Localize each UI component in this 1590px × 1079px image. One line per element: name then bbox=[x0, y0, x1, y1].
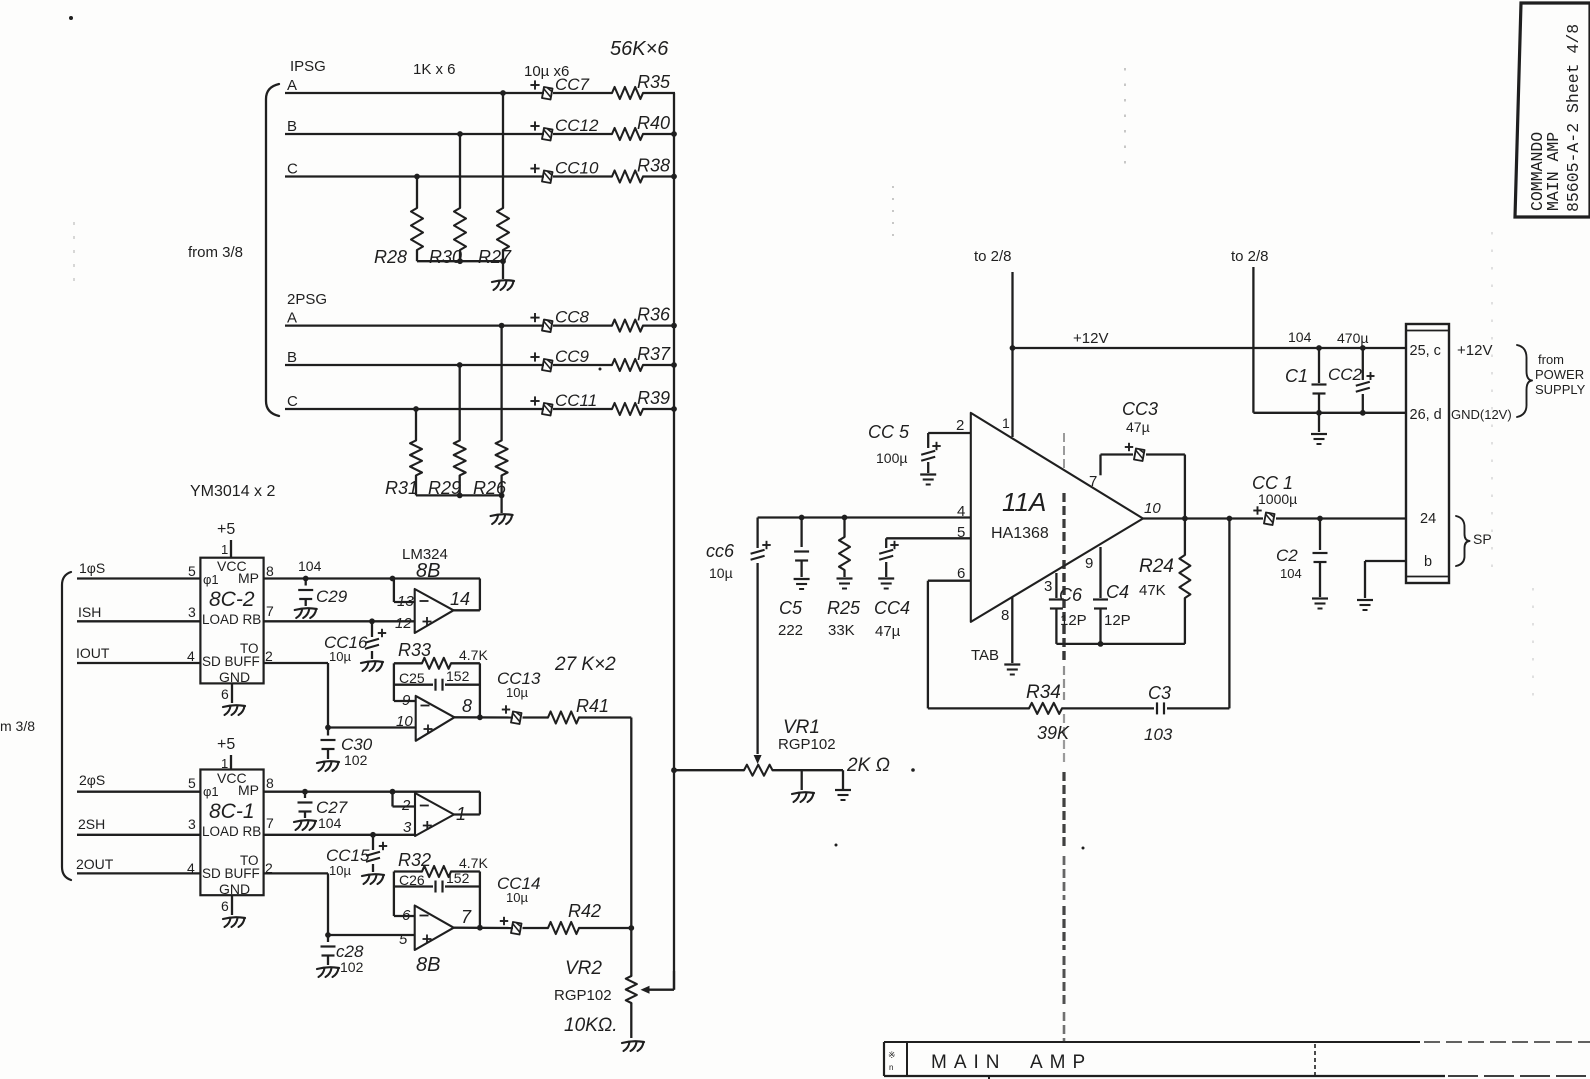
svg-text:222: 222 bbox=[778, 622, 803, 639]
svg-text:2: 2 bbox=[265, 648, 273, 664]
capacitor C26 bbox=[394, 881, 480, 893]
label C2 104 bbox=[1276, 546, 1302, 581]
svg-text:to 2/8: to 2/8 bbox=[1231, 248, 1269, 265]
svg-text:10: 10 bbox=[1144, 500, 1161, 517]
svg-text:5: 5 bbox=[399, 931, 408, 948]
svg-text:C4: C4 bbox=[1106, 582, 1129, 602]
label CC6 10u bbox=[706, 541, 735, 581]
svg-text:4: 4 bbox=[187, 648, 195, 664]
svg-text:47µ: 47µ bbox=[1126, 419, 1150, 435]
wire op-amp 14 feedback bbox=[454, 579, 480, 611]
op-amp U8B-d (6/5/7) bbox=[399, 906, 472, 951]
svg-text:8: 8 bbox=[266, 775, 274, 791]
wire MP2 (pin8) line bbox=[264, 789, 480, 795]
svg-text:SD BUFF: SD BUFF bbox=[202, 654, 260, 669]
label C6 12P bbox=[1059, 585, 1087, 629]
capacitor CC16 bbox=[361, 621, 386, 671]
label R30 bbox=[429, 247, 462, 267]
svg-text:100µ: 100µ bbox=[876, 450, 907, 466]
label C4 12P bbox=[1104, 582, 1131, 629]
svg-text:3: 3 bbox=[188, 816, 196, 832]
capacitor C25 bbox=[394, 679, 480, 691]
svg-text:SD BUFF: SD BUFF bbox=[202, 866, 260, 881]
svg-text:R30: R30 bbox=[429, 247, 462, 267]
label R32 4.7K bbox=[398, 850, 488, 871]
svg-text:LOAD RB: LOAD RB bbox=[202, 824, 261, 839]
wire 1phiS to pin 5 bbox=[77, 560, 200, 579]
wire R42 to mix node bbox=[579, 927, 631, 929]
sheet info box bbox=[1515, 3, 1590, 217]
ground C1 bbox=[1311, 413, 1327, 444]
svg-text:10KΩ.: 10KΩ. bbox=[564, 1015, 618, 1036]
wire R38 to bus bbox=[643, 175, 675, 177]
svg-text:3: 3 bbox=[403, 819, 412, 836]
resistor R33 bbox=[394, 658, 480, 669]
label C26 152 bbox=[399, 870, 470, 888]
value 1K x 6 label bbox=[413, 61, 456, 78]
label 8B (upper) bbox=[416, 560, 440, 582]
wire 2SH to pin 3 bbox=[77, 816, 200, 835]
capacitor CC7 bbox=[530, 80, 552, 99]
svg-text:8: 8 bbox=[266, 563, 274, 579]
svg-text:102: 102 bbox=[340, 959, 364, 975]
ground U8C-1 pin 6 bbox=[221, 895, 245, 927]
resistor R25 bbox=[837, 518, 853, 589]
svg-text:YM3014 x 2: YM3014 x 2 bbox=[190, 483, 275, 500]
capacitor CC2 bbox=[1356, 348, 1375, 413]
power +5 to U8C-1 pin 1 bbox=[217, 736, 235, 771]
svg-text:5: 5 bbox=[957, 524, 965, 541]
resistor R31 with wire bbox=[410, 406, 422, 495]
label VR2 RGP102 10Kohm bbox=[554, 958, 618, 1036]
label C1 104 bbox=[1285, 329, 1312, 386]
wire CC13 to R41 bbox=[523, 716, 549, 718]
svg-text:56K×6: 56K×6 bbox=[610, 38, 669, 60]
svg-text:C3: C3 bbox=[1148, 683, 1171, 703]
label CC7 bbox=[555, 75, 590, 94]
label R26 bbox=[473, 478, 507, 498]
svg-text:12P: 12P bbox=[1104, 612, 1131, 629]
svg-text:24: 24 bbox=[1420, 511, 1436, 527]
ground VR1 (earth) bbox=[835, 770, 851, 800]
power +5 to U8C-2 pin 1 bbox=[217, 521, 235, 558]
svg-text:CC10: CC10 bbox=[555, 159, 599, 178]
label R39 bbox=[637, 388, 670, 408]
label R31 bbox=[385, 478, 418, 498]
capacitor C6 on pin 3 bbox=[1049, 573, 1064, 644]
op-amp U8B-b (9/10/8) bbox=[396, 692, 472, 741]
svg-text:2: 2 bbox=[956, 417, 964, 434]
node B (1PSG) label bbox=[287, 118, 297, 135]
node 1PSG group bracket bbox=[266, 84, 279, 416]
svg-text:1φS: 1φS bbox=[79, 560, 105, 576]
ground VR2 bbox=[622, 1041, 644, 1051]
svg-text:10µ: 10µ bbox=[506, 685, 528, 700]
svg-text:102: 102 bbox=[344, 752, 368, 768]
svg-text:R41: R41 bbox=[576, 696, 609, 716]
wire GND(12V) rail bbox=[1253, 410, 1406, 416]
svg-text:B: B bbox=[287, 349, 297, 366]
capacitor C30 bbox=[317, 725, 339, 771]
svg-text:φ1: φ1 bbox=[203, 572, 219, 587]
svg-text:m 3/8: m 3/8 bbox=[0, 718, 35, 734]
svg-text:HA1368: HA1368 bbox=[991, 525, 1049, 542]
label CC4 47u bbox=[874, 598, 910, 640]
resistor R27 with wire bbox=[497, 90, 509, 261]
svg-text:R39: R39 bbox=[637, 388, 670, 408]
wire CC11 to R39 bbox=[553, 408, 612, 410]
svg-text:MP: MP bbox=[238, 782, 259, 798]
label CC1 1000u bbox=[1252, 473, 1297, 507]
label YM3014 x 2 bbox=[190, 483, 275, 500]
svg-text:3: 3 bbox=[188, 604, 196, 620]
wire MP (pin8) line bbox=[264, 576, 480, 582]
potentiometer VR1 bbox=[744, 563, 843, 776]
svg-text:R37: R37 bbox=[637, 344, 671, 364]
svg-text:C: C bbox=[287, 161, 298, 178]
IC U8C-2 YM3014 bbox=[187, 558, 274, 685]
svg-text:R38: R38 bbox=[637, 156, 670, 176]
svg-text:7: 7 bbox=[461, 907, 472, 927]
svg-text:n: n bbox=[889, 1063, 893, 1072]
svg-text:4.7K: 4.7K bbox=[459, 855, 488, 871]
svg-text:47µ: 47µ bbox=[875, 623, 901, 640]
node from POWER SUPPLY brace bbox=[1517, 345, 1586, 417]
label C25 152 bbox=[399, 668, 470, 686]
label CC8 bbox=[555, 308, 590, 327]
wire HA1368 output bbox=[1143, 517, 1263, 519]
label C28 102 bbox=[336, 942, 364, 975]
wire CC8 to R36 bbox=[553, 324, 612, 326]
svg-text:152: 152 bbox=[446, 668, 470, 684]
capacitor CC14 bbox=[500, 917, 522, 935]
svg-text:+5: +5 bbox=[217, 736, 235, 753]
svg-text:1K x 6: 1K x 6 bbox=[413, 61, 456, 78]
node 2PSG label bbox=[287, 291, 327, 308]
svg-text:C2: C2 bbox=[1276, 546, 1298, 565]
svg-text:R27: R27 bbox=[478, 247, 512, 267]
value 10u x 6 label bbox=[524, 63, 569, 80]
svg-text:104: 104 bbox=[298, 558, 322, 574]
svg-text:CC4: CC4 bbox=[874, 598, 910, 618]
capacitor C4 on pin 9 bbox=[1093, 547, 1108, 644]
wire HA1368 pin 6 feedback bbox=[928, 581, 971, 709]
svg-text:12: 12 bbox=[395, 615, 412, 632]
label LM324 bbox=[402, 546, 448, 563]
svg-text:CC2: CC2 bbox=[1328, 365, 1363, 384]
node SP brace bbox=[1456, 516, 1492, 566]
node to 2/8 (right) bbox=[1231, 248, 1269, 265]
svg-text:CC 5: CC 5 bbox=[868, 422, 910, 442]
resistor R38 bbox=[612, 171, 643, 183]
svg-text:104: 104 bbox=[1280, 566, 1302, 581]
svg-text:CC12: CC12 bbox=[555, 116, 599, 135]
wire mix node vertical R41/R42 bbox=[628, 718, 634, 977]
wire pin 9 to feedback bbox=[394, 663, 416, 701]
svg-text:10µ: 10µ bbox=[506, 890, 528, 905]
capacitor C5 bbox=[794, 518, 810, 590]
wire op-amp 1 feedback bbox=[454, 792, 480, 815]
svg-text:b: b bbox=[1424, 554, 1432, 570]
capacitor CC5 on pin 2 bbox=[920, 433, 971, 485]
svg-text:VR2: VR2 bbox=[565, 958, 602, 979]
label CC10 bbox=[555, 159, 599, 178]
ground connector pin b bbox=[1357, 561, 1406, 610]
wire U8C-2 pin2 to op-amp pin 10 bbox=[264, 663, 415, 728]
svg-text:1: 1 bbox=[221, 542, 228, 557]
svg-text:8B: 8B bbox=[416, 954, 440, 976]
svg-text:ISH: ISH bbox=[78, 604, 101, 620]
svg-text:8C-2: 8C-2 bbox=[209, 588, 255, 611]
wire 2OUT to pin 4 bbox=[76, 856, 200, 873]
capacitor C29 bbox=[295, 558, 322, 618]
svg-text:φ1: φ1 bbox=[203, 784, 219, 799]
ground U8C-2 pin 6 bbox=[221, 683, 245, 715]
label CC5 100u bbox=[868, 422, 910, 466]
wire pin 6 to feedback bbox=[394, 872, 415, 917]
wire to 2/8 down to GND rail bbox=[1252, 267, 1254, 413]
svg-text:R25: R25 bbox=[827, 598, 861, 618]
wire R41 to mix node bbox=[579, 716, 631, 718]
svg-text:CC3: CC3 bbox=[1122, 399, 1158, 419]
svg-text:8: 8 bbox=[462, 696, 472, 716]
wire CC9 to R37 bbox=[553, 364, 612, 366]
label R42 bbox=[568, 901, 601, 921]
wire CC14 to R42 bbox=[523, 927, 549, 929]
svg-text:2φS: 2φS bbox=[79, 772, 105, 788]
svg-text:SP: SP bbox=[1473, 531, 1492, 547]
wire CC7 to R35 bbox=[553, 92, 612, 94]
wire bus to VR1 bbox=[674, 769, 744, 771]
resistor R39 bbox=[612, 403, 643, 415]
label +12V (connector) bbox=[1457, 342, 1492, 359]
resistor R40 bbox=[612, 128, 643, 140]
resistor R36 bbox=[612, 320, 643, 332]
svg-text:RGP102: RGP102 bbox=[778, 736, 836, 753]
svg-text:6: 6 bbox=[221, 898, 229, 914]
svg-text:from 3/8: from 3/8 bbox=[188, 244, 243, 261]
wire tie line 1PSG resistors bbox=[417, 258, 506, 264]
wire U8C-1 pin2 to op-amp pin 5 bbox=[264, 873, 414, 935]
label C30 102 bbox=[341, 735, 373, 768]
svg-text:R34: R34 bbox=[1026, 682, 1061, 703]
svg-text:R35: R35 bbox=[637, 72, 671, 92]
label CC9 bbox=[555, 347, 590, 366]
svg-text:B: B bbox=[287, 118, 297, 135]
svg-text:1000µ: 1000µ bbox=[1258, 491, 1297, 507]
svg-text:C25: C25 bbox=[399, 670, 425, 686]
label CC15 10u bbox=[326, 846, 370, 878]
wire R39 to bus bbox=[643, 408, 675, 410]
svg-text:7: 7 bbox=[266, 603, 274, 619]
svg-text:10µ: 10µ bbox=[709, 565, 733, 581]
node A (1PSG) label bbox=[287, 77, 297, 94]
capacitor CC11 bbox=[530, 396, 552, 415]
wire 2phiS to pin 5 bbox=[77, 772, 200, 792]
capacitor CC8 bbox=[530, 313, 552, 332]
label C29 bbox=[316, 587, 348, 606]
svg-text:2K Ω: 2K Ω bbox=[846, 755, 890, 776]
svg-text:MAIN AMP: MAIN AMP bbox=[931, 1052, 1092, 1073]
node A (2PSG) label bbox=[287, 310, 297, 327]
wire CC10 to R38 bbox=[553, 175, 612, 177]
svg-text:104: 104 bbox=[1288, 329, 1312, 345]
svg-text:8: 8 bbox=[1001, 607, 1009, 624]
wire RB (pin7) to op-amp pin 12 bbox=[264, 618, 414, 624]
wire CC12 to R40 bbox=[553, 133, 612, 135]
label GND(12V) bbox=[1451, 407, 1512, 422]
wire MP2 to pin 2 bbox=[393, 792, 416, 807]
svg-text:152: 152 bbox=[446, 870, 470, 886]
wire CC1 to connector pin 24 bbox=[1276, 516, 1406, 522]
svg-text:5: 5 bbox=[188, 563, 196, 579]
svg-text:7: 7 bbox=[1089, 473, 1097, 490]
svg-text:GND: GND bbox=[219, 669, 250, 685]
wire mix bus vertical bbox=[671, 93, 677, 990]
label R24 47K bbox=[1139, 556, 1174, 599]
svg-text:VR1: VR1 bbox=[783, 717, 820, 738]
svg-text:103: 103 bbox=[1144, 725, 1173, 744]
svg-text:470µ: 470µ bbox=[1337, 330, 1368, 346]
svg-text:+12V: +12V bbox=[1457, 342, 1492, 359]
wire feedback right side bbox=[477, 663, 483, 720]
op-amp U8B-a (13/12/14) bbox=[395, 589, 470, 633]
svg-text:8C-1: 8C-1 bbox=[209, 800, 255, 823]
label R41 bbox=[576, 696, 609, 716]
capacitor CC9 bbox=[530, 352, 552, 371]
wire 1SH to pin 3 bbox=[77, 604, 200, 621]
svg-text:C29: C29 bbox=[316, 587, 348, 606]
svg-text:2SH: 2SH bbox=[78, 816, 105, 832]
title block bbox=[884, 1042, 1590, 1079]
wire R36 to bus bbox=[643, 324, 675, 326]
wire A line to CC8 bbox=[285, 324, 544, 326]
svg-text:25, c: 25, c bbox=[1410, 343, 1441, 359]
node 1PSG label bbox=[290, 58, 326, 75]
svg-text:C26: C26 bbox=[399, 872, 425, 888]
svg-text:A: A bbox=[287, 310, 297, 327]
resistor R42 bbox=[548, 922, 579, 934]
label CC13 10u bbox=[497, 669, 541, 700]
svg-text:8B: 8B bbox=[416, 560, 440, 582]
capacitor C1 bbox=[1312, 348, 1327, 413]
label CC14 10u bbox=[497, 874, 540, 905]
capacitor C28 bbox=[317, 932, 339, 977]
svg-text:5: 5 bbox=[188, 775, 196, 791]
amplifier U11A HA1368 bbox=[956, 413, 1161, 624]
wire C line to CC11 bbox=[285, 408, 544, 410]
wire feedback rail left bbox=[928, 707, 1029, 709]
svg-text:※: ※ bbox=[888, 1050, 896, 1060]
svg-text:10µ: 10µ bbox=[329, 649, 351, 664]
label R33 4.7K bbox=[398, 640, 488, 663]
svg-text:10: 10 bbox=[396, 713, 413, 730]
svg-text:SUPPLY: SUPPLY bbox=[1535, 382, 1586, 397]
svg-text:14: 14 bbox=[450, 589, 470, 609]
label R28 bbox=[374, 247, 407, 267]
wire R37 to bus bbox=[643, 364, 675, 366]
svg-text:cc6: cc6 bbox=[706, 541, 735, 561]
svg-text:C5: C5 bbox=[779, 598, 803, 618]
svg-text:1: 1 bbox=[1002, 415, 1010, 431]
svg-text:C1: C1 bbox=[1285, 366, 1308, 386]
svg-text:RGP102: RGP102 bbox=[554, 987, 612, 1004]
wire pin 7 stub bbox=[1099, 455, 1101, 476]
node from 3/8 label (left edge) bbox=[0, 718, 35, 734]
svg-text:+5: +5 bbox=[217, 521, 235, 538]
resistor R41 bbox=[548, 712, 579, 724]
label CC11 bbox=[555, 391, 597, 410]
label C27 104 bbox=[316, 798, 348, 831]
label R37 bbox=[637, 344, 671, 364]
capacitor CC1 bbox=[1253, 506, 1274, 525]
label R25 33K bbox=[827, 598, 861, 639]
svg-text:R36: R36 bbox=[637, 305, 671, 325]
label C3 103 bbox=[1144, 683, 1173, 744]
ground 2PSG resistors bbox=[491, 495, 513, 524]
svg-text:R28: R28 bbox=[374, 247, 407, 267]
wire B line to CC12 bbox=[285, 133, 544, 135]
node input bracket from 3/8 bbox=[62, 572, 71, 880]
node C (1PSG) label bbox=[287, 161, 298, 178]
svg-text:11A: 11A bbox=[1002, 487, 1046, 517]
wire B line to CC9 bbox=[285, 364, 544, 366]
svg-text:IOUT: IOUT bbox=[76, 645, 110, 661]
wire HA1368 pin 1 to +12V and to 2/8 bbox=[1010, 272, 1016, 437]
svg-text:CC 1: CC 1 bbox=[1252, 473, 1293, 493]
label R29 bbox=[428, 478, 461, 498]
svg-text:R42: R42 bbox=[568, 901, 601, 921]
label R36 bbox=[637, 305, 671, 325]
node to 2/8 (left) bbox=[974, 248, 1012, 265]
wire MP to pin 13 bbox=[394, 579, 415, 603]
svg-text:4.7K: 4.7K bbox=[459, 647, 488, 663]
wire C3 to output node bbox=[1167, 516, 1232, 709]
wire R40 to bus bbox=[643, 133, 675, 135]
resistor R24 bbox=[1179, 519, 1190, 644]
label 8B (lower) bbox=[416, 954, 440, 976]
ground HA1368 pin 8 TAB bbox=[971, 597, 1020, 675]
svg-text:A: A bbox=[287, 77, 297, 94]
svg-text:CC8: CC8 bbox=[555, 308, 590, 327]
capacitor CC13 bbox=[502, 705, 522, 724]
label 27K x 2 bbox=[554, 654, 616, 675]
resistor R28 with wire bbox=[411, 174, 423, 262]
label R40 bbox=[637, 113, 670, 133]
svg-text:104: 104 bbox=[318, 815, 342, 831]
label R27 bbox=[478, 247, 512, 267]
resistor R37 bbox=[612, 359, 643, 371]
wire feedback right side 2 bbox=[477, 872, 483, 931]
connector CN (25,c / 26,d / 24 / b) bbox=[1406, 324, 1449, 583]
svg-text:C: C bbox=[287, 393, 298, 410]
capacitor CC6 bbox=[751, 518, 771, 560]
svg-text:+12V: +12V bbox=[1073, 330, 1108, 347]
svg-text:R40: R40 bbox=[637, 113, 670, 133]
value 56K x 6 label bbox=[610, 38, 669, 60]
wire RB2 (pin7) to op-amp pin 3 bbox=[264, 832, 415, 838]
resistor R26 with wire bbox=[496, 323, 508, 496]
svg-text:R24: R24 bbox=[1139, 556, 1174, 577]
svg-text:85605-A-2 Sheet 4/8: 85605-A-2 Sheet 4/8 bbox=[1564, 24, 1583, 212]
svg-text:POWER: POWER bbox=[1535, 367, 1584, 382]
resistor R30 with wire bbox=[454, 131, 466, 261]
node B (2PSG) label bbox=[287, 349, 297, 366]
resistor R35 bbox=[612, 87, 643, 99]
svg-text:3: 3 bbox=[1044, 578, 1052, 595]
svg-text:2OUT: 2OUT bbox=[76, 856, 114, 872]
wire C6/C4/R24 bottom rail bbox=[1056, 641, 1185, 647]
